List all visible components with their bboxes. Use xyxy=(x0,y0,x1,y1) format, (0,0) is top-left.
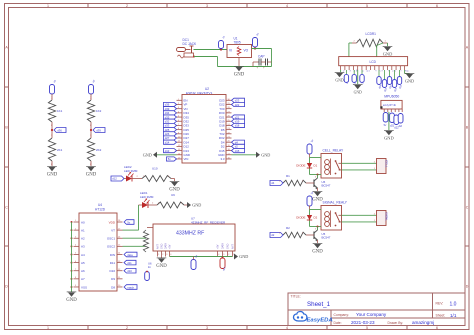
svg-text:1/1: 1/1 xyxy=(450,313,457,318)
svg-text:2K1: 2K1 xyxy=(57,148,63,152)
svg-text:1K2: 1K2 xyxy=(96,109,102,113)
svg-text:TITLE:: TITLE: xyxy=(291,295,301,299)
svg-text:A0: A0 xyxy=(81,220,85,224)
svg-text:D8: D8 xyxy=(111,285,115,289)
svg-text:ANT: ANT xyxy=(157,244,160,249)
svg-text:CAP: CAP xyxy=(258,55,265,59)
svg-text:U9: U9 xyxy=(171,193,175,197)
svg-text:GND: GND xyxy=(169,188,180,193)
svg-text:DATA: DATA xyxy=(165,243,168,249)
svg-text:5v: 5v xyxy=(384,123,387,127)
svg-text:d11: d11 xyxy=(127,261,132,265)
svg-text:1: 1 xyxy=(90,134,92,137)
svg-text:3.3: 3.3 xyxy=(220,157,224,161)
svg-text:A6: A6 xyxy=(81,269,85,273)
svg-text:5v: 5v xyxy=(255,31,260,36)
svg-text:2: 2 xyxy=(51,163,53,166)
svg-text:a1: a1 xyxy=(52,78,57,83)
svg-text:OSC1: OSC1 xyxy=(107,237,116,241)
svg-text:d14: d14 xyxy=(165,140,170,144)
svg-text:1: 1 xyxy=(375,70,377,72)
svg-text:ANT: ANT xyxy=(232,244,235,249)
svg-text:VO: VO xyxy=(244,49,249,53)
svg-text:amazingmj: amazingmj xyxy=(412,320,434,325)
svg-text:1: 1 xyxy=(47,4,49,8)
svg-text:GND: GND xyxy=(239,254,248,259)
svg-text:BC547: BC547 xyxy=(322,184,331,188)
svg-text:GND: GND xyxy=(335,79,343,83)
svg-text:GND: GND xyxy=(234,73,245,78)
svg-text:Sheet_1: Sheet_1 xyxy=(307,301,331,308)
svg-text:Date:: Date: xyxy=(334,321,342,325)
svg-text:1K1: 1K1 xyxy=(57,109,63,113)
svg-text:LED 3MM: LED 3MM xyxy=(140,195,154,199)
svg-text:2021-03-23: 2021-03-23 xyxy=(351,320,375,325)
svg-text:5v: 5v xyxy=(194,253,199,258)
svg-text:D1: D1 xyxy=(314,163,318,167)
svg-text:A: A xyxy=(466,45,469,49)
svg-text:1: 1 xyxy=(158,254,160,256)
svg-text:VT: VT xyxy=(111,228,115,232)
svg-text:d13: d13 xyxy=(165,149,170,153)
svg-text:GND: GND xyxy=(261,152,270,157)
svg-text:2: 2 xyxy=(90,124,92,127)
svg-text:2: 2 xyxy=(51,124,53,127)
svg-text:GND: GND xyxy=(143,152,152,157)
svg-text:2K2: 2K2 xyxy=(96,148,102,152)
svg-text:D: D xyxy=(466,284,469,288)
svg-text:3: 3 xyxy=(166,254,168,256)
svg-text:GND: GND xyxy=(192,203,201,208)
svg-text:GND: GND xyxy=(384,136,394,141)
svg-text:Sheet:: Sheet: xyxy=(436,313,446,317)
svg-text:3: 3 xyxy=(206,4,208,8)
svg-text:C: C xyxy=(466,205,469,209)
svg-text:GND: GND xyxy=(312,250,323,255)
svg-text:5v: 5v xyxy=(310,138,315,143)
svg-text:CELL: CELL xyxy=(384,160,388,168)
svg-text:VSS: VSS xyxy=(81,285,87,289)
svg-text:A1: A1 xyxy=(81,228,85,232)
svg-text:2: 2 xyxy=(228,254,230,256)
svg-text:3: 3 xyxy=(223,254,225,256)
svg-text:A5: A5 xyxy=(81,261,85,265)
svg-text:OSC2: OSC2 xyxy=(107,245,116,249)
svg-text:1.0: 1.0 xyxy=(450,302,457,308)
svg-text:7805: 7805 xyxy=(234,41,241,45)
svg-text:A2: A2 xyxy=(81,237,85,241)
svg-text:GND: GND xyxy=(156,264,167,269)
svg-text:DIN: DIN xyxy=(110,253,115,257)
svg-text:DIODE: DIODE xyxy=(296,215,305,219)
svg-text:lm: lm xyxy=(148,265,152,269)
svg-text:2: 2 xyxy=(126,326,128,330)
svg-text:6: 6 xyxy=(436,326,438,330)
svg-text:K: K xyxy=(408,70,410,72)
svg-text:S: S xyxy=(350,70,352,72)
svg-text:d18: d18 xyxy=(235,124,240,128)
svg-text:+5V: +5V xyxy=(217,244,220,249)
svg-text:d2i: d2i xyxy=(399,124,403,128)
svg-text:CELL_RELAY: CELL_RELAY xyxy=(323,149,344,153)
svg-text:A3: A3 xyxy=(81,245,85,249)
svg-text:d39: d39 xyxy=(96,128,101,132)
svg-text:d4: d4 xyxy=(271,181,275,185)
svg-text:d36: d36 xyxy=(57,128,62,132)
svg-text:1: 1 xyxy=(47,326,49,330)
svg-text:GND: GND xyxy=(405,79,414,84)
svg-text:a2: a2 xyxy=(91,78,96,83)
svg-text:R1: R1 xyxy=(286,174,290,178)
svg-text:d15: d15 xyxy=(235,149,240,153)
svg-text:+5V: +5V xyxy=(169,244,172,249)
svg-text:2: 2 xyxy=(162,254,164,256)
svg-text:2: 2 xyxy=(126,4,128,8)
svg-text:D2: D2 xyxy=(314,215,318,219)
svg-text:GND: GND xyxy=(354,91,362,95)
svg-text:HT12D: HT12D xyxy=(95,208,106,212)
svg-text:1: 1 xyxy=(51,97,53,100)
svg-text:5v: 5v xyxy=(310,190,315,195)
svg-text:SIGNAL_REALY: SIGNAL_REALY xyxy=(323,201,348,205)
svg-text:LCDR1: LCDR1 xyxy=(366,32,377,36)
svg-text:Drawn By:: Drawn By: xyxy=(388,321,404,325)
svg-text:3: 3 xyxy=(206,326,208,330)
svg-text:1: 1 xyxy=(385,41,387,43)
svg-text:U4: U4 xyxy=(98,203,102,207)
svg-text:GND: GND xyxy=(66,298,77,303)
svg-text:4: 4 xyxy=(170,254,172,256)
svg-text:GND: GND xyxy=(383,52,393,57)
svg-text:d2: d2 xyxy=(271,233,275,237)
svg-text:d10: d10 xyxy=(127,269,132,273)
svg-text:U10: U10 xyxy=(152,167,158,171)
svg-text:E: E xyxy=(363,70,365,72)
svg-text:R2: R2 xyxy=(286,226,290,230)
svg-text:DC JACK: DC JACK xyxy=(183,42,198,46)
svg-text:1: 1 xyxy=(51,134,53,137)
svg-text:d32: d32 xyxy=(399,84,403,89)
svg-text:mach: mach xyxy=(127,285,134,289)
svg-text:d25: d25 xyxy=(394,87,398,92)
svg-text:DIODE: DIODE xyxy=(296,163,305,167)
svg-text:SIGNL: SIGNL xyxy=(384,212,388,221)
svg-text:EasyEDA: EasyEDA xyxy=(307,318,333,324)
svg-text:d22: d22 xyxy=(235,103,240,107)
svg-text:a4 2y RT 4b: a4 2y RT 4b xyxy=(383,104,397,107)
svg-text:GND: GND xyxy=(47,173,58,178)
svg-text:Your Company: Your Company xyxy=(356,312,387,317)
svg-text:B: B xyxy=(5,125,8,129)
svg-text:GND: GND xyxy=(161,243,164,249)
svg-text:2: 2 xyxy=(137,176,139,178)
svg-text:D: D xyxy=(5,284,8,288)
svg-text:J1: J1 xyxy=(221,35,226,40)
svg-text:1: 1 xyxy=(90,97,92,100)
svg-text:d23: d23 xyxy=(384,87,388,92)
svg-text:A4: A4 xyxy=(81,253,85,257)
svg-text:LCD: LCD xyxy=(370,60,377,64)
svg-text:data: data xyxy=(127,253,133,257)
svg-text:2: 2 xyxy=(152,203,154,205)
svg-text:BC547: BC547 xyxy=(322,236,331,240)
svg-text:5: 5 xyxy=(366,326,368,330)
svg-text:D9: D9 xyxy=(111,277,115,281)
svg-text:A7: A7 xyxy=(81,277,85,281)
svg-text:7: 7 xyxy=(401,70,403,72)
svg-text:REV:: REV: xyxy=(436,302,444,306)
svg-text:B: B xyxy=(466,125,469,129)
svg-text:2: 2 xyxy=(90,163,92,166)
svg-text:VI: VI xyxy=(229,49,232,53)
svg-text:2: 2 xyxy=(354,41,356,43)
svg-text:MPU6050: MPU6050 xyxy=(384,95,399,99)
svg-text:A: A xyxy=(5,45,8,49)
svg-text:DATA: DATA xyxy=(222,243,225,249)
svg-text:433MHZ RF: 433MHZ RF xyxy=(176,231,204,237)
svg-text:C: C xyxy=(5,205,8,209)
svg-text:VIN: VIN xyxy=(184,157,189,161)
svg-text:4: 4 xyxy=(218,254,220,256)
svg-text:D10: D10 xyxy=(109,269,115,273)
svg-text:5: 5 xyxy=(366,4,368,8)
svg-text:GND: GND xyxy=(86,173,97,178)
svg-text:D11: D11 xyxy=(110,261,116,265)
svg-text:6: 6 xyxy=(436,4,438,8)
svg-text:GND: GND xyxy=(227,243,230,249)
svg-text:Company:: Company: xyxy=(334,313,350,317)
svg-text:4: 4 xyxy=(286,4,288,8)
svg-text:4: 4 xyxy=(286,326,288,330)
svg-text:VDD: VDD xyxy=(109,220,116,224)
svg-text:d12: d12 xyxy=(112,177,117,181)
